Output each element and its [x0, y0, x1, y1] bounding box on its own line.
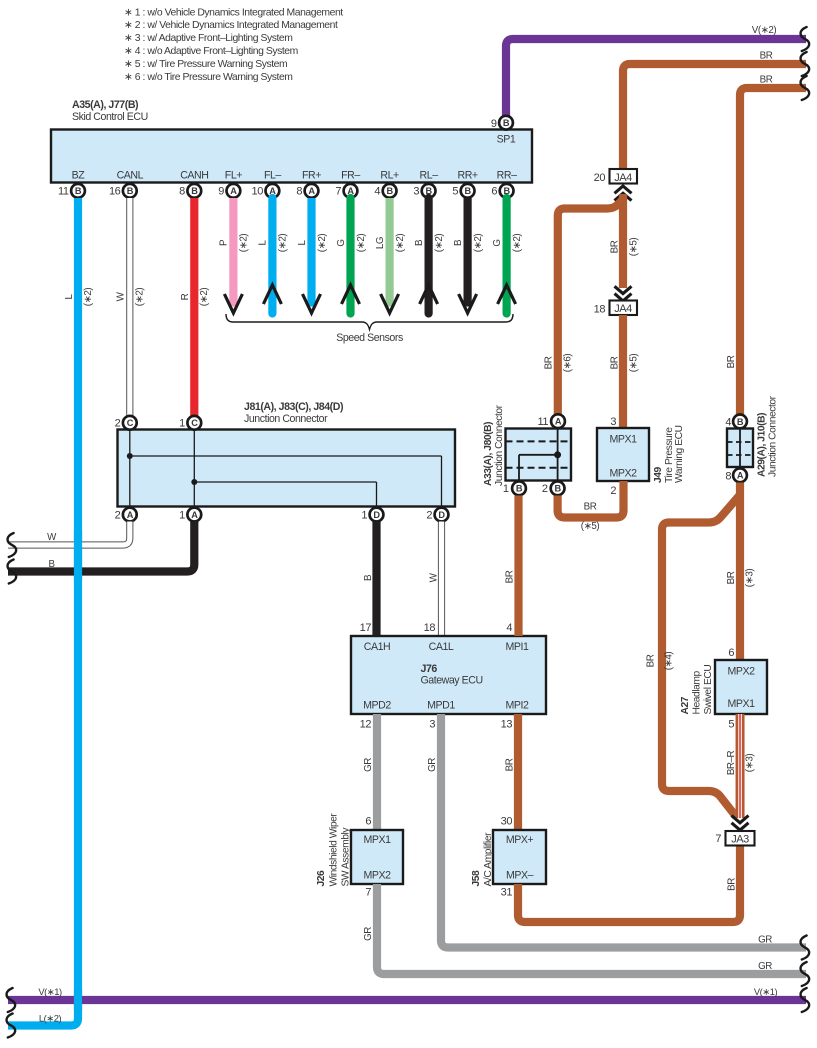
svg-text:B: B: [465, 186, 472, 196]
wire LG speed sensor RL+: [375, 198, 406, 313]
wire R(*2) from CANH to junction connector J81 pin 1C: [180, 198, 210, 417]
svg-text:BR: BR: [760, 51, 773, 62]
svg-text:J26: J26: [316, 870, 327, 887]
svg-text:(∗2): (∗2): [239, 234, 250, 253]
svg-text:BR: BR: [504, 758, 515, 771]
wire BR(*4) branch to JA3: [645, 496, 739, 817]
svg-text:D: D: [373, 510, 380, 520]
svg-text:2: 2: [115, 510, 121, 522]
wire BR(*5) J49 pin 2 to A33 pin 2B: [558, 481, 624, 532]
svg-text:BR: BR: [609, 356, 620, 369]
wire W(*2) from CANL to junction connector J81 pin 2C: [116, 198, 146, 417]
svg-text:1: 1: [179, 418, 185, 430]
svg-text:MPX2: MPX2: [727, 666, 755, 678]
svg-text:J76: J76: [421, 663, 438, 675]
svg-text:(∗2): (∗2): [512, 234, 523, 253]
svg-text:GR: GR: [758, 961, 772, 972]
svg-text:(∗2): (∗2): [473, 234, 484, 253]
svg-text:12: 12: [360, 719, 372, 731]
svg-text:BR: BR: [645, 654, 656, 667]
svg-text:C: C: [127, 418, 134, 428]
svg-text:A35(A), J77(B): A35(A), J77(B): [72, 99, 138, 111]
svg-text:GR: GR: [758, 935, 772, 946]
svg-text:(∗2): (∗2): [135, 288, 146, 307]
svg-text:B: B: [555, 484, 562, 494]
svg-text:5: 5: [728, 719, 734, 731]
svg-text:A27: A27: [680, 696, 691, 714]
svg-text:∗ 2 : w/ Vehicle Dynamics Inte: ∗ 2 : w/ Vehicle Dynamics Integrated Man…: [124, 20, 338, 31]
switch J26 Windshield Wiper SW Assembly: [316, 813, 403, 899]
wire G speed sensor RR-: [492, 198, 523, 314]
svg-text:11: 11: [537, 416, 548, 428]
wire BR J76 MPI2 to J58 MPX+: [504, 714, 518, 830]
svg-text:B: B: [453, 239, 464, 246]
svg-text:A: A: [555, 417, 562, 427]
svg-text:SP1: SP1: [497, 134, 516, 146]
svg-text:(∗2): (∗2): [83, 288, 94, 307]
svg-text:(∗5): (∗5): [628, 354, 639, 373]
wire P speed sensor FL+: [219, 198, 250, 313]
wire BR-R(*3) A27 MPX1 to JA3: [726, 714, 756, 818]
wire BR(*5) JA4 20 to JA4 18: [609, 194, 639, 288]
svg-text:BR: BR: [726, 355, 737, 368]
svg-text:2: 2: [115, 418, 121, 430]
svg-text:(∗2): (∗2): [199, 288, 210, 307]
svg-text:FL–: FL–: [264, 170, 281, 182]
svg-text:6: 6: [365, 816, 371, 828]
svg-text:8: 8: [179, 186, 185, 198]
svg-text:Speed Sensors: Speed Sensors: [336, 332, 403, 344]
svg-text:Junction Connector: Junction Connector: [494, 404, 505, 486]
svg-text:B: B: [48, 559, 54, 570]
svg-text:JA4: JA4: [614, 172, 632, 184]
svg-text:FR–: FR–: [341, 170, 360, 182]
svg-text:MPI2: MPI2: [506, 700, 529, 712]
svg-text:6: 6: [491, 186, 497, 198]
svg-text:BR: BR: [543, 356, 554, 369]
wire B from J81 pin 1D to J76 CA1H: [363, 522, 377, 637]
svg-text:MPI1: MPI1: [506, 641, 529, 653]
svg-text:RL–: RL–: [420, 170, 439, 182]
svg-text:J49: J49: [653, 466, 664, 483]
legend notes *1-*6: [124, 7, 343, 83]
svg-text:Swivel ECU: Swivel ECU: [703, 665, 714, 715]
svg-text:MPX+: MPX+: [506, 834, 534, 846]
svg-text:2: 2: [426, 510, 432, 522]
svg-text:(∗2): (∗2): [395, 234, 406, 253]
svg-text:(∗2): (∗2): [356, 234, 367, 253]
svg-text:11: 11: [58, 186, 69, 198]
wire BR(*3) A29 pin 8 to A27 pin 6: [726, 483, 756, 661]
connector JA3 pin 7: [715, 831, 754, 846]
svg-text:5: 5: [452, 186, 458, 198]
svg-text:BR: BR: [504, 570, 515, 583]
svg-text:(∗2): (∗2): [317, 234, 328, 253]
svg-text:(∗2): (∗2): [434, 234, 445, 253]
svg-text:(∗2): (∗2): [278, 234, 289, 253]
svg-text:CA1L: CA1L: [429, 641, 454, 653]
svg-text:∗ 4 : w/o Adaptive Front–Light: ∗ 4 : w/o Adaptive Front–Lighting System: [124, 46, 298, 57]
svg-text:R: R: [180, 293, 191, 300]
svg-text:Headlamp: Headlamp: [691, 670, 702, 714]
wire BR A33 pin 1B to J76 MPI1: [504, 496, 518, 637]
junction connector A29(A)/J10(B): [725, 395, 778, 482]
svg-text:FL+: FL+: [225, 170, 242, 182]
wire GR J76 MPD2 to J26 MPX1: [363, 714, 377, 830]
svg-text:G: G: [336, 239, 347, 246]
svg-text:BR: BR: [726, 571, 737, 584]
svg-text:BR: BR: [760, 75, 773, 86]
svg-text:3: 3: [429, 719, 435, 731]
svg-text:Gateway ECU: Gateway ECU: [421, 675, 483, 687]
svg-text:JA4: JA4: [614, 303, 632, 315]
svg-text:7: 7: [335, 186, 341, 198]
svg-text:17: 17: [360, 622, 372, 634]
wire BR right edge to JA4 pin 20: [623, 51, 809, 171]
ECU A27 Headlamp Swivel ECU: [680, 660, 767, 731]
svg-text:7: 7: [715, 833, 721, 845]
wire B speed sensor RL-: [414, 198, 445, 314]
svg-text:GR: GR: [363, 758, 374, 772]
svg-text:MPX1: MPX1: [363, 834, 391, 846]
svg-text:W: W: [47, 532, 57, 543]
svg-text:Warning ECU: Warning ECU: [674, 425, 685, 483]
svg-text:1: 1: [361, 510, 367, 522]
junction connector J81(A)/J83(C)/J84(D): [115, 401, 455, 522]
svg-text:BZ: BZ: [72, 170, 86, 182]
svg-text:J81(A), J83(C), J84(D): J81(A), J83(C), J84(D): [244, 401, 343, 413]
wire BR(*6) branch to junction connector A33 pin 11: [543, 200, 622, 414]
svg-text:J58: J58: [471, 870, 482, 887]
ECU J76 Gateway ECU: [351, 622, 546, 731]
svg-text:BR: BR: [584, 502, 597, 513]
ECU A35(A)/J77(B) Skid Control ECU: [51, 99, 532, 198]
svg-text:4: 4: [506, 622, 512, 634]
svg-text:10: 10: [252, 186, 264, 198]
svg-text:Junction Connector: Junction Connector: [244, 413, 328, 425]
svg-text:A: A: [737, 471, 744, 481]
wire L(*2) crossing over V(*1): [74, 990, 82, 1010]
svg-text:MPD1: MPD1: [427, 700, 455, 712]
svg-text:W: W: [116, 291, 127, 301]
svg-text:C: C: [191, 418, 198, 428]
svg-text:18: 18: [594, 304, 606, 316]
svg-text:30: 30: [501, 816, 513, 828]
arrows into JA3 pin 7: [732, 816, 749, 831]
svg-text:20: 20: [594, 172, 606, 184]
svg-text:GR: GR: [363, 927, 374, 941]
svg-text:W: W: [428, 572, 439, 582]
svg-text:V(∗1): V(∗1): [38, 986, 62, 997]
svg-text:1: 1: [179, 510, 185, 522]
svg-text:16: 16: [109, 186, 121, 198]
svg-text:RR+: RR+: [458, 170, 478, 182]
svg-text:13: 13: [501, 719, 513, 731]
wire G speed sensor FR-: [336, 198, 367, 314]
wire L(*2) from BZ to bottom left: [7, 198, 94, 1038]
svg-text:∗ 5 : w/ Tire Pressure Warning: ∗ 5 : w/ Tire Pressure Warning System: [124, 59, 287, 70]
arrows into JA4 pin 20: [615, 186, 632, 201]
wire L speed sensor FL-: [258, 198, 289, 314]
svg-text:8: 8: [725, 471, 731, 483]
ECU J58 A/C Amplifier: [471, 816, 546, 899]
svg-text:LG: LG: [375, 237, 386, 249]
svg-text:A: A: [127, 510, 134, 520]
svg-text:B: B: [191, 186, 198, 196]
svg-text:6: 6: [728, 647, 734, 659]
wire GR J26 MPX2 to right edge: [363, 884, 809, 986]
wire B speed sensor RR+: [453, 198, 484, 313]
arrows into JA4 pin 18: [615, 286, 632, 301]
svg-text:(∗3): (∗3): [744, 754, 755, 773]
svg-text:MPX1: MPX1: [727, 698, 755, 710]
svg-text:A: A: [191, 510, 198, 520]
svg-text:B: B: [737, 417, 744, 427]
svg-text:A29(A), J10(B): A29(A), J10(B): [756, 413, 767, 477]
svg-text:B: B: [363, 574, 374, 581]
svg-text:CANL: CANL: [117, 170, 144, 182]
svg-text:BR: BR: [609, 240, 620, 253]
connector JA4 pin 20: [594, 169, 637, 184]
junction connector A33(A)/J80(B): [483, 404, 571, 495]
svg-text:V(∗1): V(∗1): [754, 986, 778, 997]
svg-text:Junction Connector: Junction Connector: [767, 395, 778, 477]
svg-text:(∗3): (∗3): [744, 569, 755, 588]
svg-text:BR–R: BR–R: [726, 750, 737, 775]
svg-text:∗ 3 : w/ Adaptive Front–Lighti: ∗ 3 : w/ Adaptive Front–Lighting System: [124, 33, 292, 44]
svg-text:B: B: [414, 239, 425, 246]
wire GR J76 MPD1 to right edge: [427, 714, 809, 960]
svg-text:2: 2: [542, 483, 548, 495]
svg-text:3: 3: [413, 186, 419, 198]
svg-text:9: 9: [491, 118, 497, 130]
svg-text:A33(A), J80(B): A33(A), J80(B): [483, 422, 494, 486]
svg-text:4: 4: [374, 186, 380, 198]
svg-text:(∗5): (∗5): [628, 238, 639, 257]
svg-text:MPX2: MPX2: [609, 468, 637, 480]
svg-text:B: B: [516, 484, 523, 494]
svg-text:MPX1: MPX1: [609, 434, 637, 446]
speed sensors bracket label: [226, 314, 513, 344]
connector JA4 pin 18: [594, 301, 637, 316]
wire L(*2) crossing over W and B wires: [74, 530, 82, 580]
svg-text:9: 9: [218, 186, 224, 198]
svg-text:8: 8: [296, 186, 302, 198]
svg-text:Windshield Wiper: Windshield Wiper: [328, 813, 339, 887]
wire BR J58 MPX- to JA3: [518, 845, 740, 922]
wire BR right edge to junction connector A29 pin 4: [726, 75, 809, 415]
svg-text:18: 18: [424, 622, 436, 634]
svg-text:V(∗2): V(∗2): [752, 25, 777, 36]
svg-text:BR: BR: [726, 878, 737, 891]
svg-text:SW Assembly: SW Assembly: [340, 827, 351, 887]
svg-text:A: A: [308, 186, 315, 196]
wire W from J81 pin 2A to left edge: [8, 522, 130, 558]
svg-text:A: A: [230, 186, 237, 196]
svg-text:RR–: RR–: [497, 170, 517, 182]
wire V(*2) from SP1 to right edge: [506, 25, 809, 116]
svg-text:∗ 6 : w/o Tire Pressure Warnin: ∗ 6 : w/o Tire Pressure Warning System: [124, 72, 293, 83]
wire L speed sensor FR+: [297, 198, 328, 313]
svg-text:MPD2: MPD2: [363, 700, 391, 712]
svg-text:Skid Control ECU: Skid Control ECU: [72, 111, 148, 123]
svg-text:GR: GR: [427, 758, 438, 772]
svg-text:(∗6): (∗6): [562, 354, 573, 373]
wire BR(*5) JA4 18 to J49 pin 3: [609, 315, 639, 428]
svg-text:A/C Amplifier: A/C Amplifier: [483, 832, 494, 887]
svg-text:31: 31: [501, 887, 513, 899]
svg-text:CA1H: CA1H: [364, 641, 390, 653]
wire W from J81 pin 2D to J76 CA1L: [428, 522, 441, 637]
svg-text:B: B: [503, 118, 510, 128]
svg-text:B: B: [127, 186, 134, 196]
svg-text:B: B: [75, 186, 82, 196]
svg-text:JA3: JA3: [731, 834, 749, 846]
svg-text:CANH: CANH: [180, 170, 208, 182]
wire V(*1) across bottom: [7, 986, 810, 1012]
svg-text:3: 3: [610, 416, 616, 428]
svg-text:∗ 1 : w/o Vehicle Dynamics Int: ∗ 1 : w/o Vehicle Dynamics Integrated Ma…: [124, 7, 343, 18]
svg-text:MPX2: MPX2: [363, 870, 391, 882]
svg-text:RL+: RL+: [380, 170, 399, 182]
svg-text:L(∗2): L(∗2): [39, 1013, 62, 1024]
wire B from J81 pin 1A to left edge: [8, 522, 195, 584]
svg-text:7: 7: [365, 887, 371, 899]
svg-text:FR+: FR+: [302, 170, 321, 182]
svg-text:MPX–: MPX–: [506, 870, 534, 882]
ECU J49 Tire Pressure Warning ECU: [597, 425, 685, 483]
svg-text:B: B: [387, 186, 394, 196]
svg-text:(∗5): (∗5): [581, 521, 600, 532]
svg-text:D: D: [438, 510, 445, 520]
svg-text:P: P: [219, 239, 230, 246]
svg-text:G: G: [492, 239, 503, 246]
svg-text:(∗4): (∗4): [663, 652, 674, 671]
svg-text:4: 4: [725, 417, 731, 429]
svg-text:2: 2: [610, 485, 616, 497]
